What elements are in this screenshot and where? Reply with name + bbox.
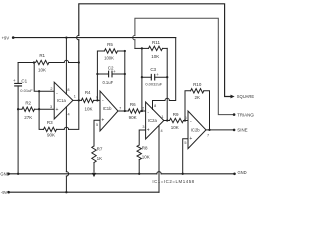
junction R2 right node <box>38 108 40 110</box>
label IC1b minus <box>102 98 104 104</box>
label IC2b pin5 <box>184 141 186 145</box>
resistor R7 <box>92 146 96 172</box>
junction C2 right <box>124 73 126 75</box>
svg-text:6: 6 <box>96 96 98 100</box>
label IC2 pin4 <box>161 129 163 133</box>
label R6 value <box>129 115 137 120</box>
resistor R11 <box>149 46 168 50</box>
resistor R5 <box>104 49 124 53</box>
svg-text:+: + <box>156 72 159 77</box>
svg-text:SINE: SINE <box>237 128 247 133</box>
op-amp IC1a <box>54 82 73 119</box>
svg-text:SQUARE: SQUARE <box>237 94 254 99</box>
label R11 <box>152 40 160 45</box>
resistor R9 <box>170 118 189 122</box>
junction R10/output <box>208 129 210 131</box>
label IC2b plus <box>189 136 192 142</box>
node sine terminal dot <box>233 129 236 132</box>
label C3 <box>150 67 156 72</box>
svg-text:R11: R11 <box>152 40 160 45</box>
junction R6 right node <box>141 110 143 112</box>
svg-text:TRIANGLE: TRIANGLE <box>237 112 254 117</box>
svg-text:R1: R1 <box>39 53 45 58</box>
label R7 value <box>97 156 103 161</box>
svg-text:1K: 1K <box>97 156 103 161</box>
label IC2b pin7 <box>207 133 209 137</box>
wire R11/C3 right vertical <box>166 48 168 120</box>
svg-text:10K: 10K <box>84 106 92 111</box>
wire IC1b plus input to R7 <box>94 120 100 146</box>
svg-text:+: + <box>13 78 16 83</box>
wire IC1 pin8 to +9V <box>65 38 67 95</box>
svg-text:R9: R9 <box>173 112 179 117</box>
resistor R2 <box>18 107 39 111</box>
junction pin2 wire / R2 branch <box>38 90 40 92</box>
label IC1a minus <box>56 90 58 96</box>
wire node vertical <box>141 48 143 111</box>
svg-text:27K: 27K <box>24 115 32 120</box>
junction IC2a output <box>166 119 168 121</box>
wire branch to R2/R3 junction <box>38 91 40 109</box>
wire IC1b output <box>118 110 128 112</box>
wire R2 node to IC1a plus input <box>39 108 54 110</box>
svg-text:100K: 100K <box>104 55 114 60</box>
label R10 value <box>194 95 200 100</box>
wire sine output <box>206 129 233 131</box>
node GND label right <box>238 170 247 175</box>
label IC1a pin3 <box>50 105 52 109</box>
wire -9V rail <box>9 191 159 193</box>
svg-text:7: 7 <box>119 106 121 110</box>
node GND terminal dot right <box>233 173 236 176</box>
capacitor C3 <box>142 74 167 80</box>
junction C1/R2 node <box>17 108 19 110</box>
label R3 value <box>47 133 55 138</box>
label R10 <box>193 82 202 87</box>
wire node to IC1a inverting input <box>34 63 54 92</box>
junction R5 right corner <box>124 50 126 52</box>
label IC2a pin3 <box>142 125 144 129</box>
label IC1b <box>103 106 113 111</box>
label IC1a <box>57 98 67 103</box>
label IC2b minus <box>190 119 192 125</box>
label R9 <box>173 112 179 117</box>
node GND label left <box>0 172 9 177</box>
label IC note <box>152 179 194 184</box>
label IC1a pin2 <box>50 87 52 91</box>
label C1 plus <box>13 78 16 83</box>
wire C1/R1 node <box>18 62 34 64</box>
svg-text:2: 2 <box>50 87 52 91</box>
junction IC1b output <box>124 110 126 112</box>
label C2 <box>108 65 114 70</box>
label IC2a pin2 <box>142 106 144 110</box>
label C3 value <box>145 82 162 87</box>
junction R1 left node <box>33 61 35 63</box>
svg-text:R10: R10 <box>193 82 202 87</box>
node GND terminal dot left <box>7 173 10 176</box>
svg-text:R7: R7 <box>97 146 103 151</box>
resistor R4 <box>81 98 100 102</box>
label IC2a pin1 <box>161 115 163 119</box>
svg-text:7: 7 <box>207 133 209 137</box>
label R5 value <box>104 55 114 60</box>
label IC1 pin8 <box>67 88 69 92</box>
label C2 value <box>102 80 113 85</box>
svg-text:3: 3 <box>50 105 52 109</box>
wire +9V rail <box>13 37 176 39</box>
svg-text:C1: C1 <box>21 78 27 83</box>
svg-text:IC1b: IC1b <box>103 106 113 111</box>
wire R2 node down to R3 <box>39 109 43 129</box>
label R4 value <box>84 106 92 111</box>
svg-text:1: 1 <box>74 95 76 99</box>
label IC2b <box>191 128 201 133</box>
resistor R10 <box>191 89 210 130</box>
label C3 plus <box>156 72 159 77</box>
wire IC2a output <box>164 120 170 122</box>
wire square-output feedback line <box>77 4 232 101</box>
svg-text:4: 4 <box>161 129 163 133</box>
label C1 <box>21 78 27 83</box>
node +9V terminal dot <box>12 36 15 39</box>
label R5 <box>107 42 113 47</box>
svg-text:8: 8 <box>154 104 156 108</box>
node -9V terminal dot <box>7 191 10 194</box>
node SINE label <box>237 128 247 133</box>
label IC1b pin6 <box>96 96 98 100</box>
label IC2a <box>148 118 158 123</box>
svg-text:0.1uF: 0.1uF <box>102 80 113 85</box>
label IC1b pin7 <box>119 106 121 110</box>
label R1 value <box>38 68 46 73</box>
wire GND rail <box>9 172 234 174</box>
wire IC2a plus input to R8 <box>139 130 145 145</box>
svg-text:10K: 10K <box>171 125 179 130</box>
label IC2 pin8 <box>154 104 156 108</box>
svg-text:IC2a: IC2a <box>148 118 158 123</box>
svg-text:0.0032uF: 0.0032uF <box>145 82 162 87</box>
label C1 value <box>20 88 33 93</box>
resistor R6 <box>128 109 145 113</box>
wire IC1a output <box>73 99 82 101</box>
svg-text:R8: R8 <box>142 146 148 151</box>
node square output arrow <box>231 95 235 99</box>
label IC2a minus <box>147 109 149 115</box>
resistor R3 <box>44 100 79 131</box>
resistor R1 <box>36 60 79 64</box>
label R8 value <box>142 154 150 159</box>
junction C2 left <box>96 73 98 75</box>
label IC1b plus <box>101 118 104 124</box>
svg-text:2: 2 <box>142 106 144 110</box>
wire IC2b plus input to GND <box>183 139 188 174</box>
op-amp IC2a <box>146 102 164 139</box>
junction R1 right / output line <box>78 61 80 63</box>
label R11 value <box>151 54 159 59</box>
label IC1a plus <box>56 107 59 113</box>
svg-text:+9V: +9V <box>2 35 10 40</box>
op-amp IC1b <box>100 91 118 131</box>
op-amp IC2b <box>188 111 206 149</box>
svg-text:8: 8 <box>67 88 69 92</box>
wire feedback left vertical <box>97 51 104 100</box>
label R8 <box>142 146 148 151</box>
label IC1b pin5 <box>96 123 98 127</box>
node SQUARE label <box>237 94 255 99</box>
junction IC1a output <box>78 99 80 101</box>
wire IC2 pin4 to -9V <box>158 125 160 192</box>
label IC1a pin1 <box>74 95 76 99</box>
capacitor C1 <box>15 63 22 110</box>
svg-text:R4: R4 <box>85 90 91 95</box>
svg-text:R5: R5 <box>107 42 113 47</box>
wire R11 left wire <box>135 47 149 49</box>
svg-text:6: 6 <box>185 116 187 120</box>
svg-text:2K: 2K <box>194 95 200 100</box>
label R7 <box>97 146 103 151</box>
svg-text:3: 3 <box>142 125 144 129</box>
svg-text:+: + <box>101 118 104 124</box>
label R3 <box>47 120 53 125</box>
svg-text:5: 5 <box>184 141 186 145</box>
wire R10 left vertical <box>185 91 191 121</box>
node TRIANGLE label <box>237 112 259 117</box>
svg-text:+: + <box>56 107 59 113</box>
label R2 value <box>24 115 32 120</box>
label IC2b pin6 <box>185 116 187 120</box>
svg-text:R6: R6 <box>130 102 136 107</box>
junction R9 right node <box>184 119 186 121</box>
node +9V label <box>2 35 10 40</box>
svg-text:R3: R3 <box>47 120 53 125</box>
svg-text:10K: 10K <box>38 68 46 73</box>
svg-text:+: + <box>189 136 192 142</box>
junction R8/GND <box>138 173 140 175</box>
junction C3 right <box>166 76 168 78</box>
wire C1 to GND <box>17 109 19 174</box>
junction C1/GND <box>17 173 19 175</box>
svg-text:IC1a: IC1a <box>57 98 67 103</box>
node -9V label <box>1 190 8 195</box>
svg-text:+: + <box>147 128 150 134</box>
svg-text:-9V: -9V <box>1 190 8 195</box>
junction R11 wire / node vertical <box>141 47 143 49</box>
svg-text:5: 5 <box>96 123 98 127</box>
wire IC2 pin8 to +9V <box>153 38 176 110</box>
svg-text:GND: GND <box>238 170 247 175</box>
svg-text:90K: 90K <box>47 133 55 138</box>
svg-text:0.01uF: 0.01uF <box>20 88 33 93</box>
junction +9V / IC1 pin8 <box>65 36 67 38</box>
node triangle terminal dot <box>233 113 236 116</box>
svg-text:90K: 90K <box>129 115 137 120</box>
label R9 value <box>171 125 179 130</box>
svg-text:4: 4 <box>68 112 70 116</box>
label C2 plus <box>113 69 116 74</box>
label IC1 pin4 <box>68 112 70 116</box>
svg-text:10K: 10K <box>142 154 150 159</box>
svg-text:+: + <box>113 69 116 74</box>
wire IC1 pin4 to -9V <box>66 107 68 192</box>
svg-text:10K: 10K <box>151 54 159 59</box>
junction -9V / IC1 pin4 <box>65 191 67 193</box>
svg-text:R2: R2 <box>25 100 31 105</box>
wire feedback right vertical <box>124 51 126 111</box>
label R2 <box>25 100 31 105</box>
label IC2a plus <box>147 128 150 134</box>
resistor R8 <box>137 145 141 174</box>
svg-text:1: 1 <box>161 115 163 119</box>
junction R4/C2 node <box>96 99 98 101</box>
node R7 ground arrow <box>92 173 96 177</box>
junction IC2b plus/GND <box>182 173 184 175</box>
wire triangle line <box>133 18 233 114</box>
junction C3 left <box>141 76 143 78</box>
label R1 <box>39 53 45 58</box>
svg-text:IC1=IC2=LM1458: IC1=IC2=LM1458 <box>152 179 194 184</box>
capacitor C2 <box>97 71 124 77</box>
label R4 <box>85 90 91 95</box>
svg-text:IC2b: IC2b <box>191 128 201 133</box>
label R6 <box>130 102 136 107</box>
